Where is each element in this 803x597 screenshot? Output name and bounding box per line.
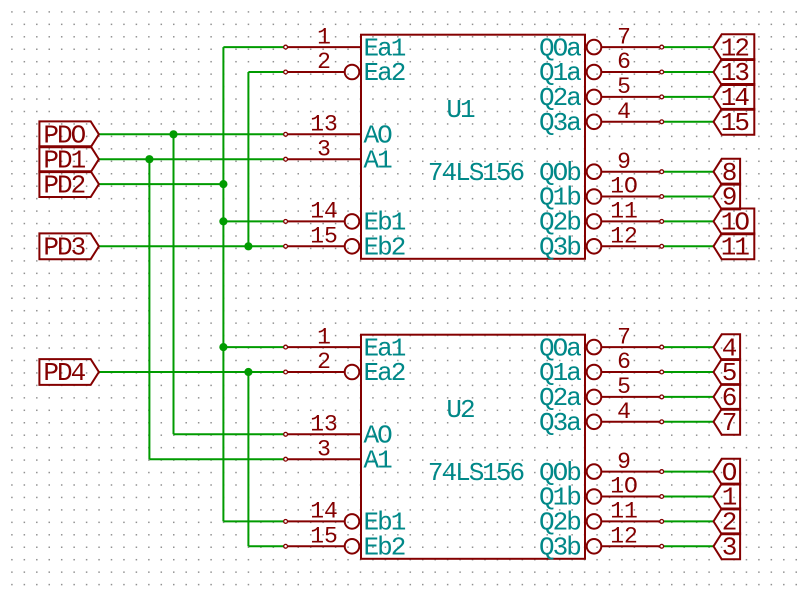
- wire to U2.Ea1: [223, 346, 285, 348]
- U2 pin 15 Eb2 (left): [284, 524, 405, 563]
- global label 10: [714, 208, 755, 238]
- U1 pin 7 Q0a (right, inverted): [539, 24, 664, 63]
- U2 pin 6 Q1a (right, inverted): [539, 349, 664, 388]
- svg-text:7: 7: [722, 408, 736, 438]
- junction PD4/U2.Ea2 tap: [244, 368, 252, 376]
- vertical wire PD2 net (Ea1/Eb1 selects): [222, 47, 224, 521]
- svg-text:15: 15: [310, 224, 338, 250]
- global label 14: [714, 83, 755, 113]
- svg-text:13: 13: [310, 112, 338, 138]
- svg-text:12: 12: [610, 224, 638, 250]
- vertical wire PD0 net to U2.A0: [173, 134, 175, 434]
- svg-text:Q3b: Q3b: [539, 533, 580, 563]
- junction U1.Eb1 tap: [219, 217, 227, 225]
- svg-text:2: 2: [317, 49, 331, 75]
- wire U1 output to label 15: [662, 121, 714, 123]
- svg-text:1: 1: [317, 324, 331, 350]
- global label 11: [714, 233, 755, 263]
- global label 1: [714, 483, 741, 513]
- global label 15: [714, 108, 755, 138]
- svg-text:4: 4: [617, 399, 631, 425]
- U1 pin 13 A0 (left): [284, 112, 392, 151]
- svg-text:1O: 1O: [610, 474, 638, 500]
- svg-text:Ea2: Ea2: [364, 358, 405, 388]
- svg-text:11: 11: [610, 499, 638, 525]
- wire PD1 to U1.A1: [99, 158, 286, 160]
- wire U1 output to label 9: [662, 196, 714, 198]
- U1 pin 3 A1 (left): [284, 136, 392, 175]
- wire PD4 to U2.Ea2: [99, 371, 286, 373]
- U2 pin 1 Ea1 (left): [284, 324, 406, 363]
- svg-text:3: 3: [317, 136, 331, 162]
- vertical wire PD3 net (U1 Ea2/Eb2): [247, 72, 249, 246]
- svg-text:1O: 1O: [610, 174, 638, 200]
- wire PD0 to U1.A0: [99, 133, 286, 135]
- vertical wire PD1 net to U2.A1: [148, 159, 150, 459]
- global label 0: [714, 458, 741, 488]
- U2 pin 9 Q0b (right, inverted): [539, 449, 664, 488]
- U1 pin 14 Eb1 (left): [284, 199, 406, 238]
- global label 13: [714, 58, 755, 88]
- U1 pin 1 Ea1 (left): [284, 24, 406, 63]
- svg-text:5: 5: [617, 74, 631, 100]
- svg-text:13: 13: [310, 412, 338, 438]
- wire U2 output to label 5: [662, 371, 714, 373]
- U2 pin 2 Ea2 (left): [284, 349, 405, 388]
- U2 pin 7 Q0a (right, inverted): [539, 324, 664, 363]
- svg-text:7: 7: [617, 324, 631, 350]
- svg-text:A1: A1: [364, 145, 393, 175]
- U2 pin 12 Q3b (right, inverted): [539, 524, 664, 563]
- wire to U2.Eb2: [248, 545, 285, 547]
- svg-text:U1: U1: [446, 95, 475, 125]
- svg-text:Q3b: Q3b: [539, 233, 580, 263]
- svg-text:6: 6: [617, 49, 631, 75]
- global label 8: [714, 158, 741, 188]
- global label PD4: [39, 358, 99, 388]
- wire U2 output to label 7: [662, 421, 714, 423]
- svg-text:7: 7: [617, 24, 631, 50]
- wire to U2.A0: [174, 433, 286, 435]
- vertical wire PD4 net (U2 Ea2/Eb2): [247, 372, 249, 546]
- wire U1 output to label 12: [662, 46, 714, 48]
- IC U1 74LS156 body: [361, 35, 585, 259]
- svg-text:PD3: PD3: [43, 233, 84, 263]
- global label 3: [714, 533, 741, 563]
- global label PD2: [39, 170, 99, 200]
- wire U2 output to label 2: [662, 520, 714, 522]
- svg-text:9: 9: [617, 449, 631, 475]
- wire U2 output to label 3: [662, 545, 714, 547]
- svg-text:14: 14: [310, 499, 338, 525]
- wire U1 output to label 11: [662, 245, 714, 247]
- svg-text:Ea2: Ea2: [364, 58, 405, 88]
- IC U2 74LS156 body: [361, 335, 585, 559]
- U2 pin 5 Q2a (right, inverted): [539, 374, 664, 413]
- U1 pin 9 Q0b (right, inverted): [539, 149, 664, 188]
- svg-text:PD2: PD2: [43, 170, 84, 200]
- wire U1 output to label 14: [662, 96, 714, 98]
- U2 pin 3 A1 (left): [284, 436, 392, 475]
- wire to U1.Ea2: [248, 71, 285, 73]
- svg-text:74LS156: 74LS156: [428, 458, 524, 488]
- global label PD0: [39, 121, 99, 151]
- U2 pin 11 Q2b (right, inverted): [539, 499, 664, 538]
- global label 12: [714, 33, 755, 63]
- global label 2: [714, 508, 741, 538]
- U1 pin 11 Q2b (right, inverted): [539, 199, 664, 238]
- junction PD3/U1.Eb2 tap: [244, 242, 252, 250]
- global label 9: [714, 183, 741, 213]
- svg-text:A1: A1: [364, 445, 393, 475]
- junction U2.Ea1 tap: [219, 343, 227, 351]
- wire to U1.Ea1: [223, 46, 285, 48]
- svg-text:6: 6: [617, 349, 631, 375]
- global label 7: [714, 408, 741, 438]
- svg-text:Q3a: Q3a: [539, 408, 581, 438]
- junction PD1/U2.A1 branch: [145, 155, 153, 163]
- wire U1 output to label 8: [662, 171, 714, 173]
- wire U1 output to label 10: [662, 220, 714, 222]
- U1 pin 6 Q1a (right, inverted): [539, 49, 664, 88]
- wire U1 output to label 13: [662, 71, 714, 73]
- wire U2 output to label 6: [662, 396, 714, 398]
- U1 pin 10 Q1b (right, inverted): [539, 174, 664, 213]
- svg-text:3: 3: [722, 533, 736, 563]
- svg-text:Q3a: Q3a: [539, 108, 581, 138]
- wire U2 output to label 0: [662, 471, 714, 473]
- svg-text:Eb2: Eb2: [364, 233, 405, 263]
- svg-text:4: 4: [617, 99, 631, 125]
- global label PD3: [39, 233, 99, 263]
- svg-text:Eb2: Eb2: [364, 533, 405, 563]
- svg-text:11: 11: [610, 199, 638, 225]
- U1 pin 15 Eb2 (left): [284, 224, 405, 263]
- U2 pin 10 Q1b (right, inverted): [539, 474, 664, 513]
- U1 pin 5 Q2a (right, inverted): [539, 74, 664, 113]
- svg-text:15: 15: [721, 108, 749, 138]
- svg-text:1: 1: [317, 24, 331, 50]
- wire PD3 to U1.Eb2: [99, 245, 286, 247]
- U1 pin 4 Q3a (right, inverted): [539, 99, 664, 138]
- wire U2 output to label 1: [662, 496, 714, 498]
- svg-text:11: 11: [721, 233, 750, 263]
- wire U2 output to label 4: [662, 346, 714, 348]
- wire to U1.Eb1: [223, 220, 285, 222]
- global label PD1: [39, 145, 99, 175]
- global label 6: [714, 383, 741, 413]
- svg-text:14: 14: [310, 199, 338, 225]
- svg-text:2: 2: [317, 349, 331, 375]
- global label 4: [714, 333, 741, 363]
- svg-text:12: 12: [610, 524, 638, 550]
- global label 5: [714, 358, 741, 388]
- U1 pin 2 Ea2 (left): [284, 49, 405, 88]
- U2 pin 14 Eb1 (left): [284, 499, 406, 538]
- U1 pin 12 Q3b (right, inverted): [539, 224, 664, 263]
- junction PD0/U2.A0 branch: [169, 130, 177, 138]
- svg-text:5: 5: [617, 374, 631, 400]
- U2 pin 4 Q3a (right, inverted): [539, 399, 664, 438]
- svg-text:15: 15: [310, 524, 338, 550]
- wire to U2.Eb1: [223, 520, 285, 522]
- svg-text:U2: U2: [446, 395, 474, 425]
- svg-text:9: 9: [617, 149, 631, 175]
- wire to U2.A1: [149, 458, 285, 460]
- wire PD2 to select bus: [99, 183, 223, 185]
- svg-text:3: 3: [317, 436, 331, 462]
- junction PD2 select tap: [219, 180, 227, 188]
- svg-text:74LS156: 74LS156: [428, 158, 524, 188]
- svg-text:PD4: PD4: [43, 358, 85, 388]
- U2 pin 13 A0 (left): [284, 412, 392, 451]
